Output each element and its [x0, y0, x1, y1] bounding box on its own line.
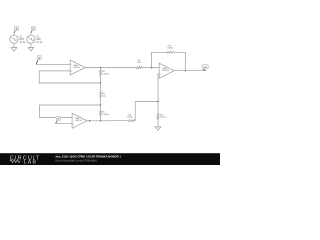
value label V1	[19, 35, 26, 44]
voltage source V2	[27, 35, 35, 44]
wire	[39, 71, 100, 83]
voltage source V1	[10, 35, 18, 44]
svg-text:1kΩ: 1kΩ	[137, 62, 141, 64]
value label R2	[167, 45, 174, 49]
value label R4	[102, 93, 106, 98]
node N7	[185, 70, 187, 72]
resistor R1	[136, 67, 142, 69]
svg-text:2V 1k: 2V 1k	[36, 41, 43, 44]
value label R3	[102, 71, 109, 76]
value label V2	[36, 35, 43, 44]
wire	[100, 83, 102, 91]
wire	[135, 102, 158, 121]
op-amp OA3	[159, 63, 174, 78]
wire	[100, 116, 102, 121]
value label R7	[160, 115, 166, 119]
bottom caption bar	[0, 153, 220, 165]
wire	[36, 63, 70, 65]
wire	[85, 67, 136, 69]
wire	[157, 102, 159, 114]
value label R1	[137, 60, 141, 64]
value label R5	[102, 112, 109, 117]
wire	[100, 76, 102, 83]
wire	[30, 43, 32, 47]
svg-text:LM741: LM741	[73, 67, 80, 69]
op-amp OA2	[72, 113, 87, 128]
svg-text:LM741: LM741	[75, 120, 82, 122]
wire	[174, 52, 185, 70]
ground GND2	[28, 48, 34, 51]
wire	[30, 33, 32, 35]
svg-text:500Ω: 500Ω	[127, 116, 133, 118]
wire	[157, 120, 159, 127]
node flag V2	[31, 26, 36, 33]
node flag OUT	[202, 65, 208, 71]
resistor R5	[100, 110, 102, 116]
wire	[151, 52, 166, 67]
wire	[13, 43, 15, 47]
wire	[100, 98, 102, 105]
wire	[87, 120, 128, 122]
node P2	[89, 120, 91, 122]
node N1	[100, 67, 102, 69]
svg-text:1V 1k: 1V 1k	[19, 41, 26, 44]
op-amp OA1	[70, 60, 85, 75]
svg-text:100kΩ: 100kΩ	[167, 47, 174, 49]
node N2	[100, 82, 102, 84]
svg-text:http://circuitlab.com/c/7t99v8: http://circuitlab.com/c/7t99v8u8	[56, 159, 98, 163]
wire	[40, 105, 101, 118]
svg-text:LAB: LAB	[24, 160, 37, 165]
resistor R7	[157, 114, 159, 120]
resistor R2	[166, 51, 174, 53]
svg-text:1kΩ: 1kΩ	[102, 96, 106, 98]
wire	[56, 123, 73, 125]
svg-text:out: out	[204, 66, 207, 69]
resistor R3	[100, 70, 102, 76]
node N5	[157, 101, 159, 103]
ground GND1	[11, 48, 17, 51]
ground GND3	[155, 127, 161, 130]
caption text	[56, 155, 122, 163]
node flag IN2	[56, 116, 61, 124]
CircuitLab logo	[10, 155, 40, 165]
svg-text:1.00kΩ: 1.00kΩ	[102, 73, 109, 75]
node N4	[100, 120, 102, 122]
node flag V1	[14, 26, 19, 33]
resistor R4	[100, 91, 102, 98]
wire	[100, 68, 102, 70]
svg-text:250Ω: 250Ω	[160, 117, 166, 119]
svg-text:1.00kΩ: 1.00kΩ	[102, 114, 109, 116]
wire	[142, 67, 159, 69]
node N6	[151, 67, 153, 69]
node flag IN1	[36, 56, 41, 65]
wire	[158, 74, 159, 102]
node N3	[100, 104, 102, 106]
wire	[13, 33, 15, 35]
value label R6	[127, 114, 133, 118]
wire	[100, 105, 102, 111]
wire	[174, 70, 205, 72]
resistor R6	[128, 120, 135, 122]
svg-text:LM741: LM741	[162, 70, 169, 72]
